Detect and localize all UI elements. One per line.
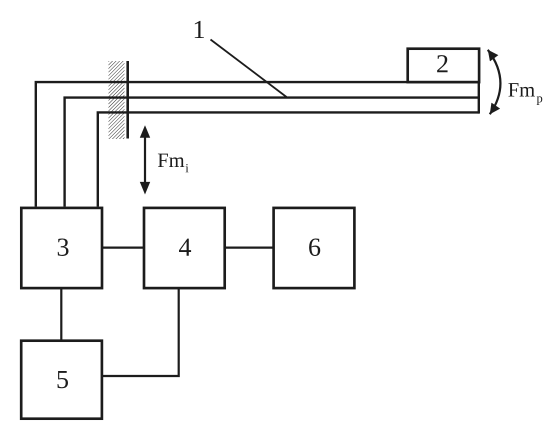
label 1: [195, 21, 204, 38]
block 5: [21, 341, 102, 419]
label Fmp: [508, 83, 542, 105]
wire block 5 to block 4 (L-shape): [102, 288, 179, 376]
vertical double arrow Fmi: [140, 125, 150, 194]
label 4: [179, 239, 191, 256]
block 4: [144, 208, 225, 288]
wire block 3 to block 4: [102, 247, 144, 249]
wire block 3 to block 5: [60, 288, 62, 341]
label 5: [58, 371, 68, 388]
clamp edge line: [126, 61, 129, 139]
label 6: [309, 238, 320, 255]
block 2 (proof mass): [408, 49, 479, 82]
wire block 4 to block 6: [225, 247, 274, 249]
curved double arrow Fmp: [488, 50, 501, 115]
hatched support wall: [109, 61, 125, 139]
block 3: [21, 208, 102, 288]
label Fmi: [158, 154, 189, 173]
beam right end cap: [478, 81, 480, 114]
block 6: [274, 208, 355, 288]
beam bottom line with left bend wire to block 3: [98, 112, 479, 206]
leader line from label 1 to beam: [211, 40, 287, 98]
beam top line with left bend wire to block 3: [36, 82, 479, 206]
beam middle line with left bend wire to block 3: [65, 98, 479, 207]
label 2: [437, 55, 447, 72]
label 3: [58, 238, 69, 255]
